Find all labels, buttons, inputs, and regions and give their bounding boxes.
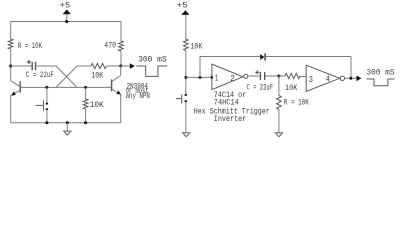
- svg-text:10K: 10K: [285, 84, 297, 93]
- capacitor C1 22uF (horizontal, polarized): [26, 60, 54, 80]
- wire: crossover diagonal (C1 line down to Q2 base line): [56, 66, 77, 87]
- wire: junction to R6: [279, 75, 285, 77]
- resistor R3 470 (Q2 collector load): [104, 41, 123, 51]
- wire: U1B output to arrow: [345, 77, 357, 79]
- svg-text:C = 22uF: C = 22uF: [26, 71, 54, 80]
- wire: left rail upper segment: [10, 22, 12, 40]
- wire: C4 to junction: [265, 75, 279, 77]
- wire: R5 to node A: [185, 51, 187, 95]
- node: junction dot output riser: [349, 77, 352, 80]
- node: junction dot left rail / C1 branch: [9, 65, 12, 68]
- wire: Q2 emitter down to bottom rail corner: [120, 94, 122, 122]
- output arrow (left circuit): [130, 63, 135, 69]
- wire: Q2 collector to junction: [120, 66, 122, 76]
- diode D1: [260, 53, 265, 60]
- label: 2N3904 or most any NPN: [126, 82, 150, 100]
- wire: 470 resistor top lead from +5 rail: [120, 22, 122, 42]
- node: junction dot diode branch: [199, 76, 202, 79]
- node: Q2 collector / output junction dot: [119, 65, 122, 68]
- svg-text:470: 470: [104, 41, 116, 50]
- wire: bottom ground rail (left circuit): [11, 122, 121, 124]
- wire: top feedback wire right of diode to output riser: [265, 56, 351, 58]
- svg-text:R = 10K: R = 10K: [284, 99, 309, 108]
- wire: node A to inverter U1A input: [186, 76, 212, 78]
- resistor R4 10K (Q1 base bias, vertical): [83, 99, 104, 110]
- transistor Q1 2N3904 (left, faces left): [11, 81, 21, 96]
- svg-text:R = 10K: R = 10K: [18, 42, 42, 51]
- wire: left rail lower segment to Q1 collector: [10, 49, 12, 81]
- svg-text:any NPN: any NPN: [126, 92, 150, 101]
- waveform: output pulse (right circuit): [367, 79, 395, 86]
- node: junction dot C2 top: [45, 86, 48, 89]
- ground symbol (below C3): [182, 132, 191, 134]
- wire: Q1 emitter to bottom rail: [10, 95, 12, 123]
- wire: output riser down to U1B output: [350, 57, 352, 79]
- wire: C1 to crossover: [36, 65, 56, 67]
- resistor R5 10K (pullup on Schmitt input): [184, 39, 203, 52]
- resistor R 10K (left rail collector resistor): [8, 39, 42, 51]
- svg-text:+5: +5: [60, 1, 71, 10]
- op-amp U1B Schmitt inverter (pins 3,4): [306, 65, 344, 91]
- svg-text:2: 2: [230, 73, 235, 84]
- wire: R7 bottom lead: [278, 110, 280, 133]
- svg-text:300 mS: 300 mS: [367, 68, 395, 77]
- wire: crossover to resistor R2: [77, 65, 91, 67]
- wire: top feedback wire left of diode D1: [200, 56, 260, 58]
- wire: R4 top lead: [85, 87, 87, 99]
- ground symbol (left circuit): [63, 123, 72, 135]
- wire: R4 bottom lead: [85, 109, 87, 123]
- wire: crossover diagonal (Q1 base line up to 10K feedback): [56, 66, 77, 87]
- wire: C2 top lead: [46, 87, 48, 103]
- svg-text:1: 1: [215, 72, 219, 83]
- wire: U1A output to C4: [248, 75, 260, 77]
- svg-text:74HC14: 74HC14: [214, 98, 239, 107]
- transistor Q2 2N3904 (right of left circuit, faces right): [112, 75, 121, 94]
- capacitor C2 22uF (vertical, polarized, Q1 base to ground): [36, 100, 49, 111]
- resistor R7 R = 10K (vertical to ground): [277, 96, 309, 110]
- svg-text:300 mS: 300 mS: [138, 56, 167, 65]
- svg-text:10K: 10K: [90, 101, 104, 110]
- svg-text:10K: 10K: [190, 43, 202, 52]
- power +5 supply symbol (right circuit): [177, 2, 190, 39]
- svg-text:10K: 10K: [91, 72, 103, 81]
- wire: left circuit top +5 rail: [11, 21, 121, 23]
- wire: C3 bottom lead: [185, 102, 187, 133]
- resistor R2 10K (horizontal feedback resistor): [91, 63, 106, 80]
- svg-text:Inverter: Inverter: [214, 115, 247, 124]
- svg-text:+5: +5: [177, 2, 188, 11]
- wire: R7 top lead: [278, 76, 280, 96]
- capacitor C4 22uF (horizontal, polarized): [247, 70, 274, 92]
- wire: diode branch riser: [199, 57, 201, 78]
- svg-text:C = 22uF: C = 22uF: [247, 83, 274, 92]
- node: junction dot node A (Schmitt input): [184, 76, 187, 79]
- resistor R6 10K (horizontal, to U1B input): [285, 73, 300, 93]
- wire: Q1 base line (lower horizontal): [21, 86, 112, 88]
- wire: from left rail to C1: [11, 65, 32, 67]
- svg-text:3: 3: [309, 74, 313, 85]
- op-amp U1A Schmitt inverter (pins 1,2): [212, 64, 248, 90]
- node: junction dot C4 / R6 / R7: [277, 75, 280, 78]
- ground symbol (below R7): [275, 132, 284, 134]
- node: junction dot ground stem: [66, 121, 69, 124]
- label: 74C14 or 74HC14 Hex Schmitt Trigger Inverter: [194, 91, 270, 124]
- node: junction dot R4 bottom: [84, 121, 87, 124]
- wire: C2 bottom lead: [46, 110, 48, 123]
- output arrow (right circuit): [356, 76, 361, 82]
- node: junction dot R4 top: [84, 86, 87, 89]
- wire: R6 to U1B input: [300, 76, 306, 78]
- wire: R2 to collector node of Q2: [106, 65, 120, 67]
- svg-text:4: 4: [326, 73, 330, 84]
- power +5 supply symbol (left circuit): [60, 1, 71, 23]
- wire: 470 to collector node: [120, 51, 122, 66]
- capacitor C3 22uF (vertical, node A to ground): [176, 94, 187, 104]
- node: junction dot C2 bottom: [45, 121, 48, 124]
- waveform: output pulse (left circuit): [136, 66, 167, 76]
- node: dot at U1A input: [211, 76, 214, 79]
- wire: output stub to arrow: [121, 65, 130, 67]
